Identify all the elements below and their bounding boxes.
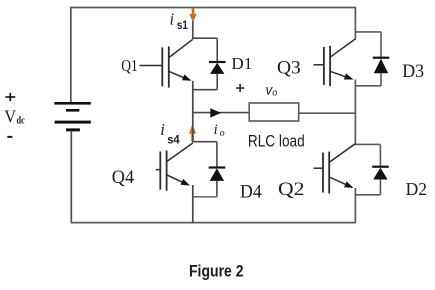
current arrow i_s1 — [189, 8, 196, 22]
svg-text:vo: vo — [266, 82, 278, 97]
svg-text:Q2: Q2 — [278, 179, 305, 200]
wire D1 bottom to Q1 emitter — [192, 89, 217, 91]
wire left rail upper — [70, 7, 72, 103]
svg-text:RLC load: RLC load — [248, 133, 305, 151]
current arrow i_s4 — [189, 124, 196, 142]
diode D3 branch wire upper — [380, 32, 382, 57]
label + (battery) — [5, 93, 15, 101]
label + (load) — [236, 84, 244, 92]
svg-text:s4: s4 — [167, 132, 180, 146]
svg-text:Q3: Q3 — [277, 57, 301, 78]
wire node to D2 top — [355, 143, 381, 145]
diode D2 branch wire lower — [379, 180, 381, 195]
battery V_dc — [54, 102, 91, 131]
diode D1 — [209, 61, 226, 74]
wire load to right leg — [299, 112, 356, 114]
svg-text:V: V — [4, 107, 16, 127]
wire Q4 emitter to bottom rail — [192, 185, 194, 223]
current arrow i_o (load arrow) — [210, 108, 221, 117]
op IGBT Q1 — [140, 39, 193, 87]
svg-text:D1: D1 — [231, 54, 252, 73]
wire Q1 emitter to mid node — [192, 81, 194, 114]
diode D2 — [372, 166, 389, 180]
svg-text:o: o — [220, 128, 225, 139]
diode D3 — [373, 57, 390, 74]
svg-text:D4: D4 — [240, 181, 262, 202]
svg-text:Q4: Q4 — [112, 167, 135, 188]
wire D4 bottom to Q4 emitter — [192, 196, 217, 198]
wire D3 bottom to Q3 emitter — [355, 85, 381, 87]
wire Q1 collector drop — [192, 21, 194, 38]
svg-text:D2: D2 — [406, 179, 427, 199]
diode D4 branch wire lower — [216, 181, 218, 197]
diode D3 branch wire lower — [380, 73, 382, 86]
wire node to D1 top — [192, 37, 217, 39]
diode D1 branch wire upper — [216, 38, 218, 61]
wire top rail — [71, 7, 356, 9]
label - (battery) — [7, 136, 12, 138]
wire left rail lower — [70, 131, 72, 222]
svg-text:i: i — [160, 120, 165, 139]
op IGBT Q4 — [156, 143, 193, 191]
wire node to D4 top — [192, 141, 217, 143]
svg-text:D3: D3 — [402, 61, 424, 82]
wire mid node to Q4 collector corner — [192, 113, 194, 142]
Q2 emitter arrowhead — [344, 181, 354, 188]
wire mid node to load — [193, 112, 249, 114]
wire node to D3 top — [355, 31, 381, 33]
svg-text:i: i — [170, 9, 175, 28]
wire bottom rail — [71, 222, 356, 224]
RLC load box — [249, 103, 299, 121]
Q4 emitter arrowhead — [181, 179, 191, 186]
Q1 emitter arrowhead — [182, 74, 192, 80]
diode D4 — [209, 166, 226, 181]
svg-text:Figure 2: Figure 2 — [189, 262, 244, 281]
op IGBT Q2 — [314, 144, 356, 194]
svg-text:Q1: Q1 — [121, 56, 138, 75]
diode D1 branch wire lower — [216, 74, 218, 90]
wire Q3 emitter down through mid to Q2 — [354, 80, 356, 145]
svg-text:s1: s1 — [177, 18, 188, 32]
wire right leg top drop — [354, 7, 356, 40]
svg-text:i: i — [214, 122, 218, 138]
diode D2 branch wire upper — [379, 144, 381, 166]
wire Q2 emitter to bottom rail — [354, 188, 356, 223]
svg-text:dc: dc — [17, 115, 26, 126]
op IGBT Q3 — [313, 39, 355, 86]
diode D4 branch wire upper — [216, 142, 218, 167]
Q3 emitter arrowhead — [344, 74, 354, 80]
wire D2 bottom to Q2 emitter — [355, 194, 381, 196]
